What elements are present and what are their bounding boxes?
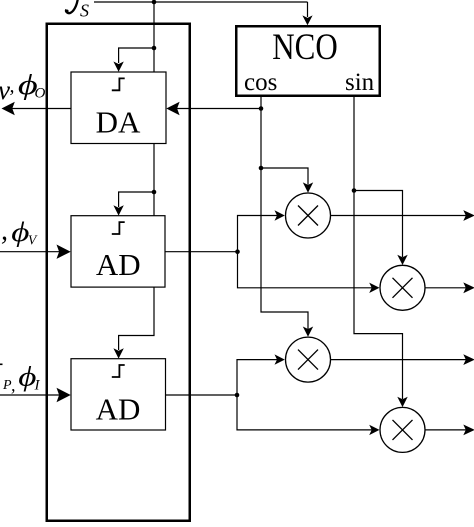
wire AD2 to mixer3 xyxy=(237,360,278,395)
DA converter box xyxy=(71,72,166,144)
big box (DSP board outline) xyxy=(47,24,190,521)
svg-text:AD: AD xyxy=(96,247,141,282)
mixer M3 xyxy=(286,337,331,382)
arrowhead into mixer1 left xyxy=(275,210,285,220)
wire AD2 to mixer4 xyxy=(237,395,372,430)
arrowhead into AD1 clock xyxy=(113,205,123,215)
svg-text:,: , xyxy=(1,216,8,247)
wire AD2 input xyxy=(0,394,63,396)
svg-text:O: O xyxy=(35,85,46,101)
wire DA clock branch xyxy=(119,48,154,63)
junction fS/clock xyxy=(152,0,157,4)
svg-text:I: I xyxy=(34,378,41,394)
arrowhead into mixer2 top xyxy=(397,255,407,265)
arrowhead mixer1 output end xyxy=(463,210,474,221)
arrowhead into mixer4 left xyxy=(369,425,379,435)
junction cos to DA xyxy=(259,106,264,111)
label fS (cropped f descender) xyxy=(66,0,78,13)
arrowhead into mixer1 top xyxy=(303,182,313,192)
wire DA input from cos xyxy=(174,108,261,110)
NCO U1 box xyxy=(236,26,380,96)
mixer M2 xyxy=(380,265,425,310)
arrowhead into NCO top xyxy=(302,15,312,25)
wire mixer1 output xyxy=(331,215,467,217)
wire AD1 clock branch xyxy=(119,192,154,207)
arrowhead into AD2 input xyxy=(57,388,71,402)
junction DA clock xyxy=(152,46,157,51)
mixer M1 xyxy=(286,193,331,238)
AD2 converter box xyxy=(71,359,166,430)
svg-text:cos: cos xyxy=(244,69,277,96)
junction cos to mixer1 xyxy=(259,166,264,171)
arrowhead into mixer2 left xyxy=(369,283,379,293)
arrowhead mixer4 output end xyxy=(463,425,474,436)
mixer M4 xyxy=(380,407,425,452)
wire cos branch to mixer1 xyxy=(261,168,308,185)
wire sin branch to mixer2 xyxy=(354,191,403,258)
svg-text:ϕ: ϕ xyxy=(11,217,29,247)
wire mixer2 output xyxy=(425,287,466,289)
arrowhead into mixer3 top xyxy=(303,327,313,337)
svg-text:v: v xyxy=(0,75,10,105)
arrowhead into DA clock xyxy=(113,62,123,72)
junction AD1 output xyxy=(235,249,240,254)
AD1 converter box xyxy=(71,216,165,287)
label3 cropped fragment xyxy=(0,364,3,366)
AD1 clock symbol xyxy=(112,222,125,234)
DA clock symbol xyxy=(112,78,125,90)
wire clock trunk upper xyxy=(153,2,155,72)
junction AD2 output xyxy=(235,393,240,398)
arrowhead into mixer3 left xyxy=(275,354,285,364)
wire AD1 to mixer1 xyxy=(238,216,278,252)
wire clock trunk lower xyxy=(119,287,154,350)
arrowhead into mixer4 top xyxy=(397,397,407,407)
wire DA output left xyxy=(10,108,71,110)
wire AD2 output xyxy=(166,394,238,396)
arrowhead into AD2 clock xyxy=(113,348,123,358)
arrowhead mixer3 output end xyxy=(463,354,474,365)
wire clock trunk mid xyxy=(153,144,155,216)
wire cos vertical xyxy=(261,96,308,329)
wire sin vertical xyxy=(354,96,403,399)
arrowhead mixer2 output end xyxy=(463,282,474,293)
wire fS down to NCO xyxy=(307,2,309,17)
svg-text:AD: AD xyxy=(96,392,141,427)
wire AD1 to mixer2 xyxy=(238,252,373,288)
svg-text:NCO: NCO xyxy=(272,28,337,68)
junction AD1 clock xyxy=(152,190,157,195)
svg-text:S: S xyxy=(80,1,89,21)
arrowhead DA output left xyxy=(2,102,15,115)
svg-text:,: , xyxy=(11,375,16,395)
svg-text:,: , xyxy=(10,75,15,97)
svg-text:sin: sin xyxy=(345,69,375,96)
arrowhead into AD1 input xyxy=(57,245,71,259)
wire mixer3 output xyxy=(331,359,467,361)
wire mixer4 output xyxy=(425,429,466,431)
wire fS horizontal top xyxy=(94,1,308,3)
junction sin to mixer2 xyxy=(352,188,357,193)
NCO label xyxy=(272,28,337,68)
wire AD1 input xyxy=(0,251,63,253)
AD2 clock symbol xyxy=(112,365,125,377)
wire AD1 output xyxy=(165,251,238,253)
svg-text:DA: DA xyxy=(96,105,141,140)
arrowhead into DA right input xyxy=(166,102,179,115)
